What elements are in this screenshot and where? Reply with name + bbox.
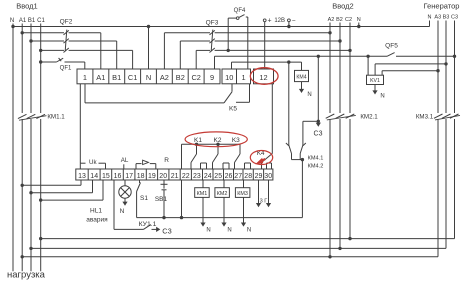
- junction terminal 22 on collector line: [180, 216, 183, 219]
- terminal strip top cells 1 A1 B1 C1 N A2 B2 C2 9: [77, 69, 220, 84]
- junction C1 tap: [39, 49, 42, 52]
- svg-text:15: 15: [102, 173, 110, 180]
- breaker QF2 tie bar: [65, 30, 67, 52]
- label нагрузка (load): [7, 270, 46, 281]
- junction B1 terminal 14: [29, 191, 32, 194]
- relay contact K3: [235, 144, 251, 169]
- terminal 12V plus circle: [263, 19, 266, 22]
- wire B1 line QF2 to terminal B1: [69, 41, 117, 69]
- wire QF4 left drop to C2 line: [228, 18, 236, 50]
- wire C3 generator line right: [396, 55, 455, 57]
- junction C2 tap QF4: [227, 49, 230, 52]
- wire KU1.1 arrow to C3: [152, 227, 161, 232]
- label K2: [214, 137, 222, 144]
- wire C3 net arrow: [316, 121, 321, 127]
- svg-text:3 Г: 3 Г: [260, 199, 268, 205]
- label C3 at KU1.1: [162, 226, 171, 235]
- breaker QF2 label: [60, 19, 73, 26]
- svg-text:N: N: [10, 18, 14, 24]
- junction C2 tap on Ввод2: [348, 49, 351, 52]
- node Ввод2 phase labels A2 B2 C2 N: [328, 17, 361, 23]
- relay coil КМ3 box: [235, 188, 250, 198]
- svg-text:K3: K3: [232, 137, 240, 144]
- svg-text:N: N: [428, 15, 432, 21]
- wire SB1 down: [163, 190, 165, 218]
- switch QF4 contact circle: [236, 17, 239, 20]
- svg-text:КМ2: КМ2: [217, 191, 228, 197]
- svg-text:AL: AL: [121, 157, 129, 164]
- svg-text:22: 22: [182, 173, 190, 180]
- wire QF4 right drop to terminal 1: [246, 17, 248, 69]
- wire contacts join bar: [292, 159, 303, 161]
- svg-text:N: N: [357, 17, 361, 23]
- wire Ввод2 A2 vertical lower: [329, 119, 331, 257]
- svg-text:16: 16: [114, 173, 122, 180]
- svg-text:N: N: [380, 94, 384, 100]
- wire KM4 to N arrow: [299, 82, 304, 93]
- svg-text:SB1: SB1: [155, 196, 168, 203]
- contactor KM2.1 tie: [327, 115, 356, 120]
- svg-text:QF2: QF2: [60, 19, 73, 26]
- svg-text:N: N: [247, 228, 251, 234]
- svg-text:R: R: [164, 157, 169, 164]
- label 3Г generator start: [260, 199, 268, 205]
- wire S1 down: [136, 192, 138, 218]
- pushbutton SB1 label: [155, 196, 168, 203]
- terminal 12V minus circle: [288, 19, 291, 22]
- switch K5 blade: [224, 92, 232, 103]
- label R: [164, 157, 169, 164]
- wire KM4.1 lower: [291, 154, 293, 160]
- wire KV1 input from A3: [382, 71, 438, 76]
- svg-text:C3: C3: [162, 226, 171, 235]
- wire Генератор A3 vertical lower: [437, 119, 439, 257]
- svg-text:26: 26: [225, 173, 233, 180]
- svg-text:20: 20: [159, 173, 167, 180]
- contact KU1.1 label: [139, 221, 157, 228]
- relay KV1 label: [370, 78, 380, 84]
- svg-text:9: 9: [210, 73, 214, 82]
- wire K5 blade to terminal 10: [231, 84, 233, 92]
- node Ввод1 (input 1) title: [16, 2, 37, 11]
- label КМ1 N: [206, 228, 210, 234]
- contactor KM3.1 blade C3: [450, 114, 459, 118]
- junction load bus B at B2: [338, 247, 341, 250]
- label K1: [194, 137, 202, 144]
- lamp HL1 label: [86, 208, 108, 224]
- svg-text:12: 12: [259, 73, 267, 82]
- node Ввод1 phase labels N A1 B1 C1: [10, 18, 46, 24]
- wire collector line S1: [137, 217, 303, 219]
- junction KM4 line branch KM4.1: [287, 60, 290, 63]
- node Генератор (generator) title: [424, 2, 460, 11]
- wire 12V minus down to N bus: [288, 22, 290, 27]
- svg-text:1: 1: [83, 73, 87, 82]
- node Ввод2 (input 2) title: [332, 2, 353, 11]
- relay contact K2: [213, 144, 230, 169]
- wire terminal 30 start signal: [266, 180, 271, 207]
- svg-text:C2: C2: [191, 73, 200, 82]
- junction K2 tap: [216, 143, 219, 146]
- breaker QF2 pole B blade: [64, 39, 69, 44]
- wire terminal 18 stub: [139, 180, 141, 183]
- lamp HL1 circle: [119, 186, 131, 198]
- svg-text:24: 24: [204, 173, 212, 180]
- wire N bus horizontal: [13, 26, 430, 28]
- svg-text:10: 10: [225, 73, 233, 82]
- svg-text:B2: B2: [176, 73, 185, 82]
- relay contact K1: [191, 144, 207, 169]
- wire C2 line QF3 to Ввод2: [215, 49, 350, 51]
- wire K5 bus bracket: [85, 84, 224, 103]
- junction load bus A at A1: [21, 255, 24, 258]
- contactor KM3.1 label: [416, 114, 434, 121]
- contact KU1.1 blade: [143, 225, 150, 230]
- highlight red ellipse around terminal 12: [250, 68, 278, 85]
- wire Ввод2 B2 vertical lower: [339, 119, 341, 248]
- relay coil КМ1 box: [195, 188, 210, 198]
- svg-text:Генератор: Генератор: [424, 2, 460, 11]
- contact KM4.1 blade: [286, 143, 292, 154]
- contactor KM3.1 blade B3: [442, 114, 451, 118]
- svg-text:КМ4: КМ4: [296, 75, 306, 81]
- switch QF5 blade: [387, 53, 395, 57]
- wire Uk fork: [80, 163, 105, 169]
- svg-text:29: 29: [255, 173, 263, 180]
- svg-text:27: 27: [234, 173, 242, 180]
- wire Ввод1 B1 vertical lower: [30, 119, 32, 271]
- junction A1 tap: [21, 31, 24, 34]
- svg-text:−: −: [292, 18, 296, 25]
- junction B1 tap: [29, 39, 32, 42]
- wire Генератор B3 vertical upper: [445, 21, 447, 114]
- wire terminal 14 to B1: [31, 180, 93, 193]
- breaker QF3 pole C blade: [210, 48, 215, 53]
- label КМ3 N: [247, 228, 251, 234]
- wire terminal 20 stub: [163, 180, 165, 184]
- svg-text:19: 19: [148, 173, 156, 180]
- wire terminal 17 to lamp: [124, 180, 126, 186]
- label Uk: [89, 159, 97, 166]
- wire terminal 29 start signal: [256, 180, 261, 207]
- switch K5 label: [229, 106, 237, 113]
- wire Генератор C3 vertical upper: [454, 21, 456, 114]
- wire QF1 to terminal 1: [65, 62, 85, 69]
- wire Генератор A3 vertical upper: [437, 21, 439, 114]
- svg-text:Ввод2: Ввод2: [332, 2, 353, 11]
- breaker QF4 label: [234, 8, 246, 14]
- wire KM4 coil line: [232, 62, 302, 70]
- svg-text:КМ1.1: КМ1.1: [47, 114, 65, 121]
- wire Ввод2 A2 vertical upper: [329, 23, 331, 114]
- svg-text:K1: K1: [194, 137, 202, 144]
- wire Ввод1 C1 vertical upper: [40, 24, 42, 114]
- svg-text:C1: C1: [128, 73, 137, 82]
- svg-text:КМ4.2: КМ4.2: [308, 163, 324, 169]
- svg-text:QF5: QF5: [385, 43, 398, 50]
- wire terminal 10 stem: [231, 62, 233, 69]
- highlight red ellipse K4: [250, 151, 272, 165]
- contactor KM1.1 label: [47, 114, 65, 121]
- svg-text:КМ2.1: КМ2.1: [360, 114, 378, 121]
- relay coil КМ3 label: [237, 191, 248, 197]
- wire terminal 16 down: [114, 180, 143, 229]
- label AL with tick: [121, 157, 129, 169]
- wire KM4.2 lower: [299, 154, 301, 160]
- svg-text:A2: A2: [328, 17, 335, 23]
- svg-text:A2: A2: [160, 73, 169, 82]
- contactor KM1.1 blade B1: [27, 114, 36, 118]
- junction B3 tap KV1: [444, 62, 447, 65]
- junction N bus tap to terminal N: [147, 25, 150, 28]
- svg-text:23: 23: [193, 173, 201, 180]
- breaker QF5 label: [385, 43, 398, 50]
- svg-text:C3: C3: [451, 15, 458, 21]
- junction A3 tap KV1: [436, 69, 439, 72]
- svg-text:30: 30: [264, 173, 272, 180]
- breaker QF3 pole B blade: [210, 39, 215, 44]
- svg-text:21: 21: [171, 173, 179, 180]
- label C3 net: [314, 131, 323, 138]
- relay coil KM4 label: [296, 75, 306, 81]
- wire load bus C: [41, 238, 455, 240]
- svg-text:B1: B1: [28, 18, 36, 24]
- junction C1 terminal 15: [39, 198, 42, 201]
- contactor KM2.1 blade B2: [336, 114, 345, 118]
- svg-text:Uk: Uk: [89, 159, 97, 166]
- label K4: [257, 150, 265, 157]
- svg-text:КМ3.1: КМ3.1: [416, 114, 434, 121]
- svg-text:нагрузка: нагрузка: [7, 270, 46, 281]
- contactor KM1.1 blade A1: [18, 114, 27, 118]
- wire B1 line left of QF2: [31, 40, 64, 42]
- wire C3 generator line left: [215, 55, 388, 57]
- svg-text:25: 25: [214, 173, 222, 180]
- svg-text:HL1: HL1: [90, 208, 102, 215]
- terminal strip top cell 12: [254, 69, 274, 84]
- junction C3 net branch: [317, 120, 320, 123]
- wire Генератор C3 vertical lower: [454, 119, 456, 239]
- wire Ввод1 N vertical: [12, 24, 14, 272]
- contactor KM1.1 blade C1: [36, 114, 45, 118]
- label 12V plus: [267, 18, 271, 25]
- wire B2 line QF3 to Ввод2: [215, 40, 340, 42]
- wire A2 line from terminal A2: [164, 33, 210, 69]
- contactor KM2.1 label: [360, 114, 378, 121]
- wire Генератор N stem: [429, 21, 431, 27]
- wire contacts collector: [301, 160, 303, 218]
- wire terminal 1 down feeder: [79, 84, 81, 163]
- label 12V minus: [292, 18, 296, 25]
- wire Ввод1 B1 vertical upper: [30, 24, 32, 114]
- wire lamp to N arrow: [122, 198, 127, 206]
- svg-text:N: N: [227, 228, 231, 234]
- wire C1 line QF2 to terminal C1: [69, 50, 133, 69]
- wire terminal N stem: [148, 27, 150, 70]
- contactor KM1.1 tie: [19, 116, 47, 121]
- junction load bus C at C2: [348, 237, 351, 240]
- breaker QF2 pole C blade: [64, 48, 69, 53]
- pushbutton SB1 symbol: [161, 184, 168, 190]
- junction K1 tap: [195, 143, 198, 146]
- label KM4.1: [308, 156, 324, 162]
- switch S1 blade: [137, 183, 141, 192]
- contactor KM3.1 tie: [435, 115, 460, 120]
- wire KV1 to N arrow: [372, 85, 377, 95]
- node Генератор phase labels N A3 B3 C3: [428, 15, 459, 21]
- highlight red arrow at K4: [255, 158, 265, 164]
- wire terminal to coil КМ1: [202, 180, 204, 188]
- wire КМ3 to N arrow: [241, 197, 246, 226]
- junction B2 tap on Ввод2: [338, 39, 341, 42]
- label КМ2 N: [227, 228, 231, 234]
- junction A1 terminal 13: [21, 184, 24, 187]
- svg-text:B2: B2: [336, 17, 343, 23]
- relay contact K4: [262, 154, 273, 170]
- wire terminal 9 stem: [214, 56, 216, 69]
- svg-text:+: +: [267, 18, 271, 25]
- label KV1 N: [380, 94, 384, 100]
- highlight red ellipse K1 K2 K3: [185, 132, 247, 147]
- breaker QF3 pole A blade: [210, 30, 215, 35]
- wire C3 net vertical: [317, 56, 319, 121]
- label relay symbol bracket: [136, 160, 156, 169]
- wire K5 right contact from terminal 1: [236, 84, 250, 103]
- wire terminal 12 down to K4: [271, 84, 273, 154]
- contactor KM2.1 blade C2: [346, 114, 355, 118]
- junction N bus tap Ввод2 N: [357, 25, 360, 28]
- svg-text:КУ1.1: КУ1.1: [139, 221, 157, 228]
- svg-text:1: 1: [241, 73, 245, 82]
- junction N bus tap 12V minus: [287, 25, 290, 28]
- svg-text:28: 28: [244, 173, 252, 180]
- breaker QF3 label: [206, 20, 219, 27]
- wire KV1 input from B3: [375, 64, 446, 75]
- svg-text:авария: авария: [86, 217, 108, 224]
- svg-text:A1: A1: [96, 73, 105, 82]
- wire A2 line QF3 to Ввод2: [215, 32, 330, 34]
- wire terminal 22 bottom drop: [181, 180, 183, 218]
- terminal strip top cells 10 1: [222, 69, 251, 84]
- wire QF1 line from C1: [41, 61, 57, 63]
- svg-text:N: N: [206, 228, 210, 234]
- wire Ввод2 C2 vertical lower: [349, 119, 351, 239]
- wire Ввод2 B2 vertical upper: [339, 23, 341, 114]
- svg-text:КМ4.1: КМ4.1: [308, 156, 324, 162]
- svg-text:18: 18: [137, 173, 145, 180]
- breaker QF1 blade: [57, 58, 64, 62]
- svg-text:QF4: QF4: [234, 8, 246, 14]
- wire load bus B: [31, 247, 446, 249]
- junction load bus C at C1: [39, 237, 42, 240]
- terminal strip bottom cells 13-30: [76, 169, 273, 180]
- svg-text:K2: K2: [214, 137, 222, 144]
- wire 12V plus down to terminal 12: [264, 22, 266, 69]
- junction load bus A at A2: [328, 255, 331, 258]
- label KM4 N: [307, 92, 311, 98]
- wire C1 line left of QF2: [41, 49, 64, 51]
- svg-text:C1: C1: [37, 18, 45, 24]
- wire Ввод2 N stem: [358, 23, 360, 27]
- junction SB1 on collector line: [162, 216, 165, 219]
- wire terminal 13 to A1: [22, 180, 81, 185]
- relay coil КМ2 label: [217, 191, 228, 197]
- svg-text:C3: C3: [314, 131, 323, 138]
- svg-text:14: 14: [90, 173, 98, 180]
- wire Ввод1 C1 vertical lower: [40, 119, 42, 271]
- wire KM4.2 branch from C3 net: [303, 121, 318, 145]
- wire КМ2 to N arrow: [221, 197, 226, 226]
- label K3: [232, 137, 240, 144]
- wire Ввод2 C2 vertical upper: [349, 23, 351, 114]
- svg-text:K5: K5: [229, 106, 237, 113]
- wire Генератор B3 vertical lower: [445, 119, 447, 248]
- wire load bus A: [22, 256, 438, 258]
- wire terminal 15 to C1: [41, 180, 103, 200]
- svg-text:C2: C2: [345, 17, 352, 23]
- junction C3 line at generator C3: [453, 55, 456, 58]
- junction A2 tap on Ввод2: [328, 31, 331, 34]
- wire terminal 22 to K bus: [182, 144, 241, 169]
- svg-text:KV1: KV1: [370, 78, 380, 84]
- wire KM4.1 drop: [288, 62, 290, 145]
- junction contacts join: [301, 158, 304, 161]
- svg-text:13: 13: [78, 173, 86, 180]
- junction C3 line KV1 tap: [366, 55, 369, 58]
- svg-text:QF3: QF3: [206, 20, 219, 27]
- wire C2 line from terminal C2: [196, 50, 210, 69]
- breaker QF2 pole A blade: [64, 30, 69, 35]
- svg-text:A3: A3: [434, 15, 441, 21]
- svg-text:N: N: [146, 73, 151, 82]
- junction C3 line drop: [317, 55, 320, 58]
- svg-text:КМ3: КМ3: [237, 191, 248, 197]
- contactor KM3.1 blade A3: [434, 114, 443, 118]
- contactor KM2.1 blade A2: [326, 114, 335, 118]
- relay coil КМ1 label: [197, 191, 208, 197]
- label HL1 N: [120, 208, 125, 215]
- wire KV1 input from C3 line: [367, 56, 369, 75]
- relay coil KM4 box: [295, 70, 309, 81]
- label 12В: [274, 18, 285, 24]
- svg-text:QF1: QF1: [60, 66, 72, 72]
- svg-text:N: N: [307, 92, 311, 98]
- junction C1 tap QF1: [39, 60, 42, 63]
- wire Ввод1 A1 vertical lower: [21, 119, 23, 271]
- relay KV1 box: [367, 75, 384, 84]
- contact KM4.2 blade: [300, 143, 306, 154]
- svg-text:Ввод1: Ввод1: [16, 2, 37, 11]
- switch QF4 blade: [239, 15, 245, 18]
- svg-text:N: N: [120, 208, 125, 215]
- breaker QF1 label: [60, 66, 72, 72]
- switch S1 label: [140, 195, 148, 202]
- svg-text:S1: S1: [140, 195, 148, 202]
- svg-text:B3: B3: [443, 15, 450, 21]
- svg-text:КМ1: КМ1: [197, 191, 208, 197]
- label KM4.2: [308, 163, 324, 169]
- wire B2 line from terminal B2: [180, 41, 210, 69]
- junction load bus B at B1: [29, 247, 32, 250]
- junction N bus at N input: [11, 25, 14, 28]
- wire КМ1 to N arrow: [200, 197, 205, 226]
- svg-text:A1: A1: [19, 18, 27, 24]
- wire A1 line left of QF2: [22, 32, 64, 34]
- relay coil КМ2 box: [215, 188, 230, 198]
- wire Ввод1 A1 vertical upper: [21, 24, 23, 114]
- wire A1 line QF2 to terminal A1: [69, 33, 101, 69]
- wire terminal to coil КМ3: [243, 180, 245, 188]
